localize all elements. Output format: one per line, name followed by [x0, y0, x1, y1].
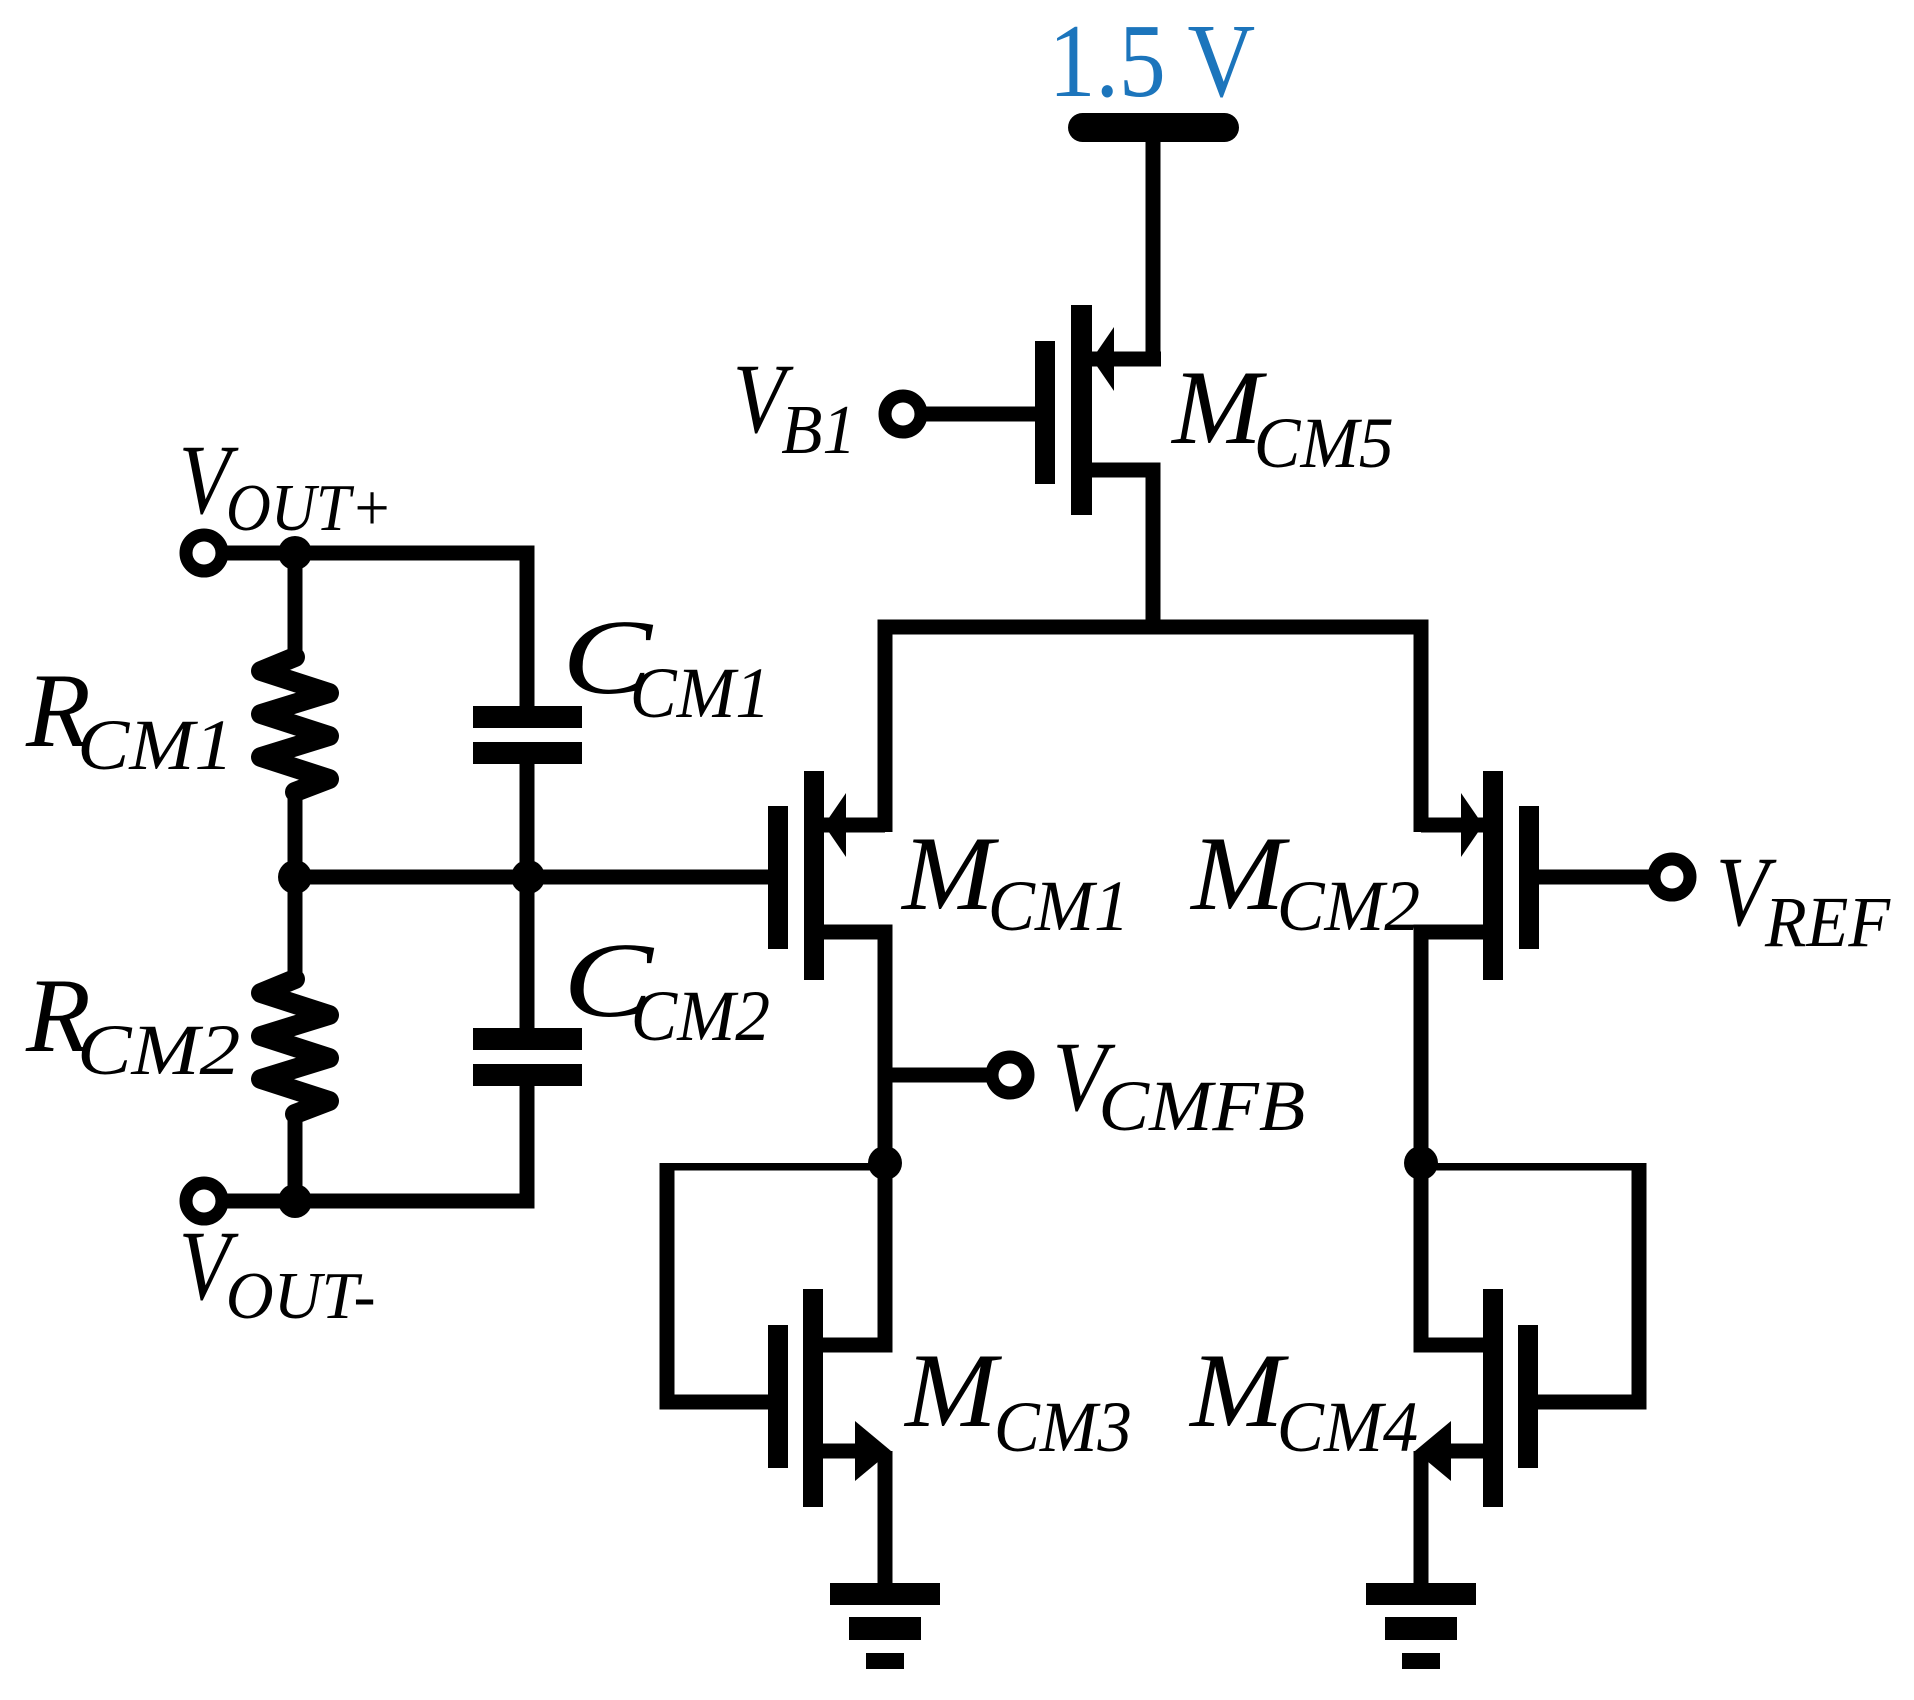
label VREF: [1716, 837, 1777, 947]
svg-text:M: M: [900, 816, 1000, 933]
wire MCM3 source leg: [823, 1444, 863, 1459]
wire MCM5 drain leg: [1092, 463, 1161, 635]
terminal VB1: [885, 396, 921, 432]
wire VB1 gate wire: [921, 407, 1035, 422]
svg-text:CM4: CM4: [1277, 1387, 1418, 1467]
svg-text:CM2: CM2: [1277, 866, 1420, 946]
transistor MCM2 gate bar: [1519, 806, 1539, 949]
svg-text:OUT-: OUT-: [226, 1260, 376, 1333]
wire MCM5 source leg: [1092, 352, 1161, 367]
resistor RCM2: [261, 979, 329, 1114]
wire VCMFB tap: [885, 1068, 990, 1083]
svg-text:M: M: [1188, 1332, 1289, 1449]
svg-text:M: M: [1189, 815, 1290, 932]
wire VOUT+ row: [222, 546, 535, 707]
wire RCM1 bottom lead: [288, 790, 303, 880]
transistor MCM1 channel bar: [804, 771, 824, 980]
label MCM5: [1170, 350, 1267, 467]
transistor MCM5 channel bar: [1071, 305, 1092, 515]
svg-text:M: M: [1170, 350, 1267, 467]
wire MCM3 drain leg: [823, 1338, 885, 1353]
wire MCM1 source leg: [824, 818, 885, 833]
wire MCM4 diode loop: [1421, 1163, 1647, 1410]
label CCM2: [563, 921, 655, 1040]
wire VOUT- row: [222, 1086, 535, 1209]
label MCM3: [903, 1333, 1003, 1450]
wire MCM1 drain vertical: [878, 925, 893, 1353]
capacitor CCM1: [473, 706, 582, 728]
resistor RCM1: [261, 657, 329, 792]
label MCM2: [1189, 815, 1290, 932]
svg-text:OUT+: OUT+: [226, 470, 393, 545]
label RCM2: [25, 957, 91, 1074]
wire MCM2 drain vertical: [1414, 925, 1429, 1353]
terminal VOUT-: [186, 1183, 222, 1219]
wire RCM2 top lead: [288, 877, 303, 981]
node junction dot left: [868, 1146, 902, 1180]
wire mid row to MCM1 gate: [295, 870, 768, 885]
wire RCM2 bottom lead: [288, 1112, 303, 1201]
transistor MCM5 gate bar: [1035, 341, 1055, 484]
node dot mid-cap: [511, 860, 545, 894]
wire MCM4 drain leg: [1421, 1338, 1483, 1353]
wire MCM4 source leg: [1443, 1444, 1483, 1459]
svg-text:CM1: CM1: [630, 654, 771, 733]
svg-text:B1: B1: [781, 391, 856, 468]
node VDD 1.5V label: [1049, 2, 1256, 119]
svg-text:REF: REF: [1764, 882, 1891, 962]
transistor MCM4 channel bar: [1483, 1289, 1503, 1507]
transistor MCM1 gate bar: [768, 806, 788, 949]
wire MCM2 gate to VREF: [1539, 870, 1651, 885]
transistor MCM2 channel bar: [1483, 771, 1503, 980]
label RCM1: [25, 652, 91, 769]
MCM1 source arrow (PMOS): [824, 793, 846, 857]
svg-text:M: M: [903, 1333, 1003, 1450]
wire MCM4 source vertical: [1414, 1451, 1429, 1585]
svg-text:CM1: CM1: [988, 866, 1130, 946]
svg-text:CM2: CM2: [77, 1009, 240, 1089]
terminal VCMFB: [992, 1057, 1028, 1093]
node dot VOUT-: [278, 1184, 312, 1218]
transistor MCM3 gate bar: [768, 1325, 788, 1468]
ground GND1: [830, 1583, 940, 1605]
label VB1: [733, 344, 794, 454]
node junction dot right: [1404, 1146, 1438, 1180]
power rail VDD bar: [1068, 113, 1239, 142]
wire top rail: [878, 620, 1429, 833]
wire cap column mid: [520, 764, 535, 1028]
MCM2 source arrow (PMOS): [1461, 793, 1483, 857]
MCM3 source arrow (NMOS): [855, 1421, 891, 1481]
wire MCM2 source leg: [1421, 818, 1483, 833]
svg-text:CM3: CM3: [994, 1388, 1132, 1468]
svg-text:CMFB: CMFB: [1098, 1067, 1305, 1147]
wire RCM1 top lead: [288, 553, 303, 659]
transistor MCM4 gate bar: [1518, 1325, 1538, 1468]
svg-text:CM1: CM1: [77, 706, 233, 786]
wire VDD stem: [1146, 140, 1161, 366]
label VOUT-: [179, 1210, 239, 1321]
wire MCM1 drain leg: [824, 925, 885, 940]
capacitor CCM2: [473, 1028, 582, 1050]
terminal VOUT+: [186, 535, 222, 571]
label CCM1: [562, 598, 654, 717]
svg-text:CM5: CM5: [1254, 404, 1394, 483]
label VCMFB: [1053, 1022, 1116, 1132]
MCM4 source arrow (NMOS): [1415, 1421, 1451, 1481]
svg-text:1.5 V: 1.5 V: [1049, 2, 1256, 119]
label MCM1: [900, 816, 1000, 933]
svg-text:CM2: CM2: [631, 977, 770, 1056]
label VOUT+: [179, 424, 239, 535]
MCM5 source arrow (PMOS): [1092, 327, 1114, 391]
label MCM4: [1188, 1332, 1289, 1449]
transistor MCM3 channel bar: [803, 1289, 823, 1507]
wire MCM3 source vertical: [878, 1451, 893, 1585]
wire MCM3 diode loop: [660, 1163, 886, 1410]
wire MCM2 drain leg: [1421, 925, 1483, 940]
terminal VREF: [1654, 859, 1690, 895]
node dot VOUT+: [278, 536, 312, 570]
node dot mid-left: [278, 860, 312, 894]
ground GND2: [1366, 1583, 1476, 1605]
